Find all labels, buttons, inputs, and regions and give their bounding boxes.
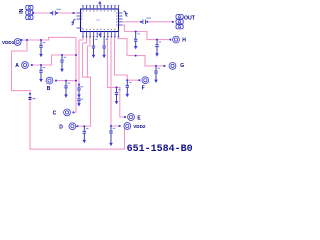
resistor R1 (left rail series) bbox=[29, 98, 32, 100]
connector D bbox=[69, 123, 76, 130]
connector A bbox=[22, 62, 29, 69]
capacitor C9 bbox=[134, 32, 137, 46]
svg-text:D: D bbox=[59, 124, 63, 130]
wire fan to node D bbox=[83, 77, 91, 126]
capacitor C5 bbox=[77, 85, 80, 95]
svg-text:U1: U1 bbox=[96, 18, 100, 22]
no-connect brace right of U1 bbox=[124, 11, 128, 16]
ground arrow below U1 center pins bbox=[98, 34, 101, 37]
wire pin fan 2 bbox=[83, 37, 87, 77]
svg-text:IN: IN bbox=[19, 8, 25, 13]
capacitor C15 (VDD2) bbox=[109, 127, 112, 143]
svg-text:B: B bbox=[47, 86, 51, 92]
svg-text:G: G bbox=[180, 63, 184, 69]
wire U1 to node H bbox=[123, 25, 171, 40]
terminal on left rail bbox=[29, 93, 31, 95]
connector H bbox=[173, 36, 180, 43]
op-amp U1 (QFP IC body) bbox=[81, 9, 119, 32]
connector VDD2 bbox=[124, 123, 131, 130]
wire branch to node E bbox=[108, 37, 126, 117]
power symbol above U1 bbox=[99, 4, 101, 7]
capacitor C11 (G) bbox=[154, 67, 157, 80]
svg-text:OUT: OUT bbox=[184, 16, 196, 22]
capacitor C4 (B) bbox=[64, 81, 67, 94]
svg-text:651-1584-B0: 651-1584-B0 bbox=[127, 144, 193, 155]
svg-text:VDD2: VDD2 bbox=[133, 124, 146, 129]
U1 top pins bbox=[82, 6, 84, 9]
U1 bottom pins bbox=[82, 32, 84, 37]
no-connect brace left of U1 bbox=[72, 19, 76, 25]
junction dots bbox=[26, 39, 28, 41]
wire node D stub bbox=[77, 125, 84, 127]
wire IN to C-in bbox=[33, 12, 52, 14]
wire pin fan 3 bbox=[88, 37, 91, 77]
wire branch to node F bbox=[115, 37, 140, 80]
wire node A branch bbox=[32, 55, 77, 65]
connector E bbox=[128, 114, 135, 121]
terminal squares bbox=[32, 12, 34, 14]
svg-text:H: H bbox=[182, 38, 186, 44]
wire U1 to C-out bbox=[123, 21, 142, 23]
capacitor C3 (A) bbox=[39, 66, 42, 79]
capacitor C14 (D) bbox=[83, 127, 86, 140]
wire pin fan 1 bbox=[79, 37, 83, 85]
wire node B branch bbox=[56, 80, 76, 82]
wire VDD1 down left rail + bottom rail bbox=[12, 40, 125, 149]
connector B bbox=[46, 77, 53, 84]
capacitor C8 bbox=[102, 38, 105, 55]
wire pin to VDD2 bbox=[111, 37, 120, 126]
connector J-IN (3-pin header) bbox=[26, 5, 33, 19]
connector G bbox=[169, 63, 176, 70]
wire branch to node G bbox=[118, 37, 165, 66]
U1 right pins bbox=[119, 12, 123, 14]
capacitor C13 (E) bbox=[115, 88, 118, 101]
capacitor C7 bbox=[92, 38, 95, 55]
svg-text:VDD1: VDD1 bbox=[2, 40, 15, 45]
capacitor C-in (series) bbox=[53, 11, 56, 16]
capacitor C-out (series) bbox=[143, 20, 146, 25]
connector C bbox=[64, 109, 71, 116]
capacitor C1 (VDD1) bbox=[39, 41, 42, 54]
capacitor C6 bbox=[77, 98, 80, 104]
capacitor C10 (H) bbox=[155, 40, 158, 53]
U1 left pins bbox=[77, 12, 81, 14]
svg-text:A: A bbox=[15, 63, 19, 69]
connector F bbox=[142, 77, 149, 84]
capacitor C2 bbox=[60, 56, 63, 69]
wire VDD1 rail to node C bbox=[21, 37, 76, 112]
svg-text:F: F bbox=[142, 85, 145, 91]
capacitor C12 (F) bbox=[126, 81, 129, 94]
connector J-OUT (3-pin header) bbox=[176, 15, 183, 29]
wire node C stub bbox=[73, 111, 76, 113]
svg-text:C: C bbox=[53, 110, 57, 116]
wire C-in to U1 bbox=[57, 12, 77, 14]
wire C-out to OUT bbox=[147, 21, 173, 23]
connector VDD1 bbox=[14, 39, 21, 46]
